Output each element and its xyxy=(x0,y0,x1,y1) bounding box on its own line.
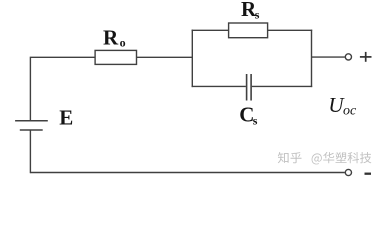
wire xyxy=(137,56,193,58)
terminal - xyxy=(345,169,351,175)
svg-text:s: s xyxy=(255,8,260,22)
svg-text:oc: oc xyxy=(343,103,357,118)
wire xyxy=(30,57,95,120)
label R_o xyxy=(103,25,126,49)
plus sign xyxy=(360,52,372,62)
wire xyxy=(29,131,31,174)
wire xyxy=(312,56,345,58)
svg-text:s: s xyxy=(253,114,258,128)
svg-text:o: o xyxy=(120,36,126,50)
resistor R_s xyxy=(229,23,268,38)
terminal + xyxy=(345,54,351,60)
minus sign xyxy=(365,173,372,175)
wire xyxy=(192,29,229,31)
svg-text:R: R xyxy=(103,25,119,49)
watermark 知乎 @华塑科技 xyxy=(278,152,372,165)
wire xyxy=(252,85,312,87)
capacitor C_s xyxy=(247,74,252,101)
label C_s xyxy=(239,103,258,128)
battery E xyxy=(15,121,48,130)
wire xyxy=(192,85,246,87)
wire xyxy=(311,30,313,88)
resistor R_o xyxy=(95,50,136,64)
label R_s xyxy=(241,0,260,22)
wire xyxy=(30,172,345,174)
svg-text:E: E xyxy=(59,106,73,130)
label U_oc xyxy=(328,93,357,119)
wire xyxy=(191,30,193,88)
wire xyxy=(267,29,312,31)
